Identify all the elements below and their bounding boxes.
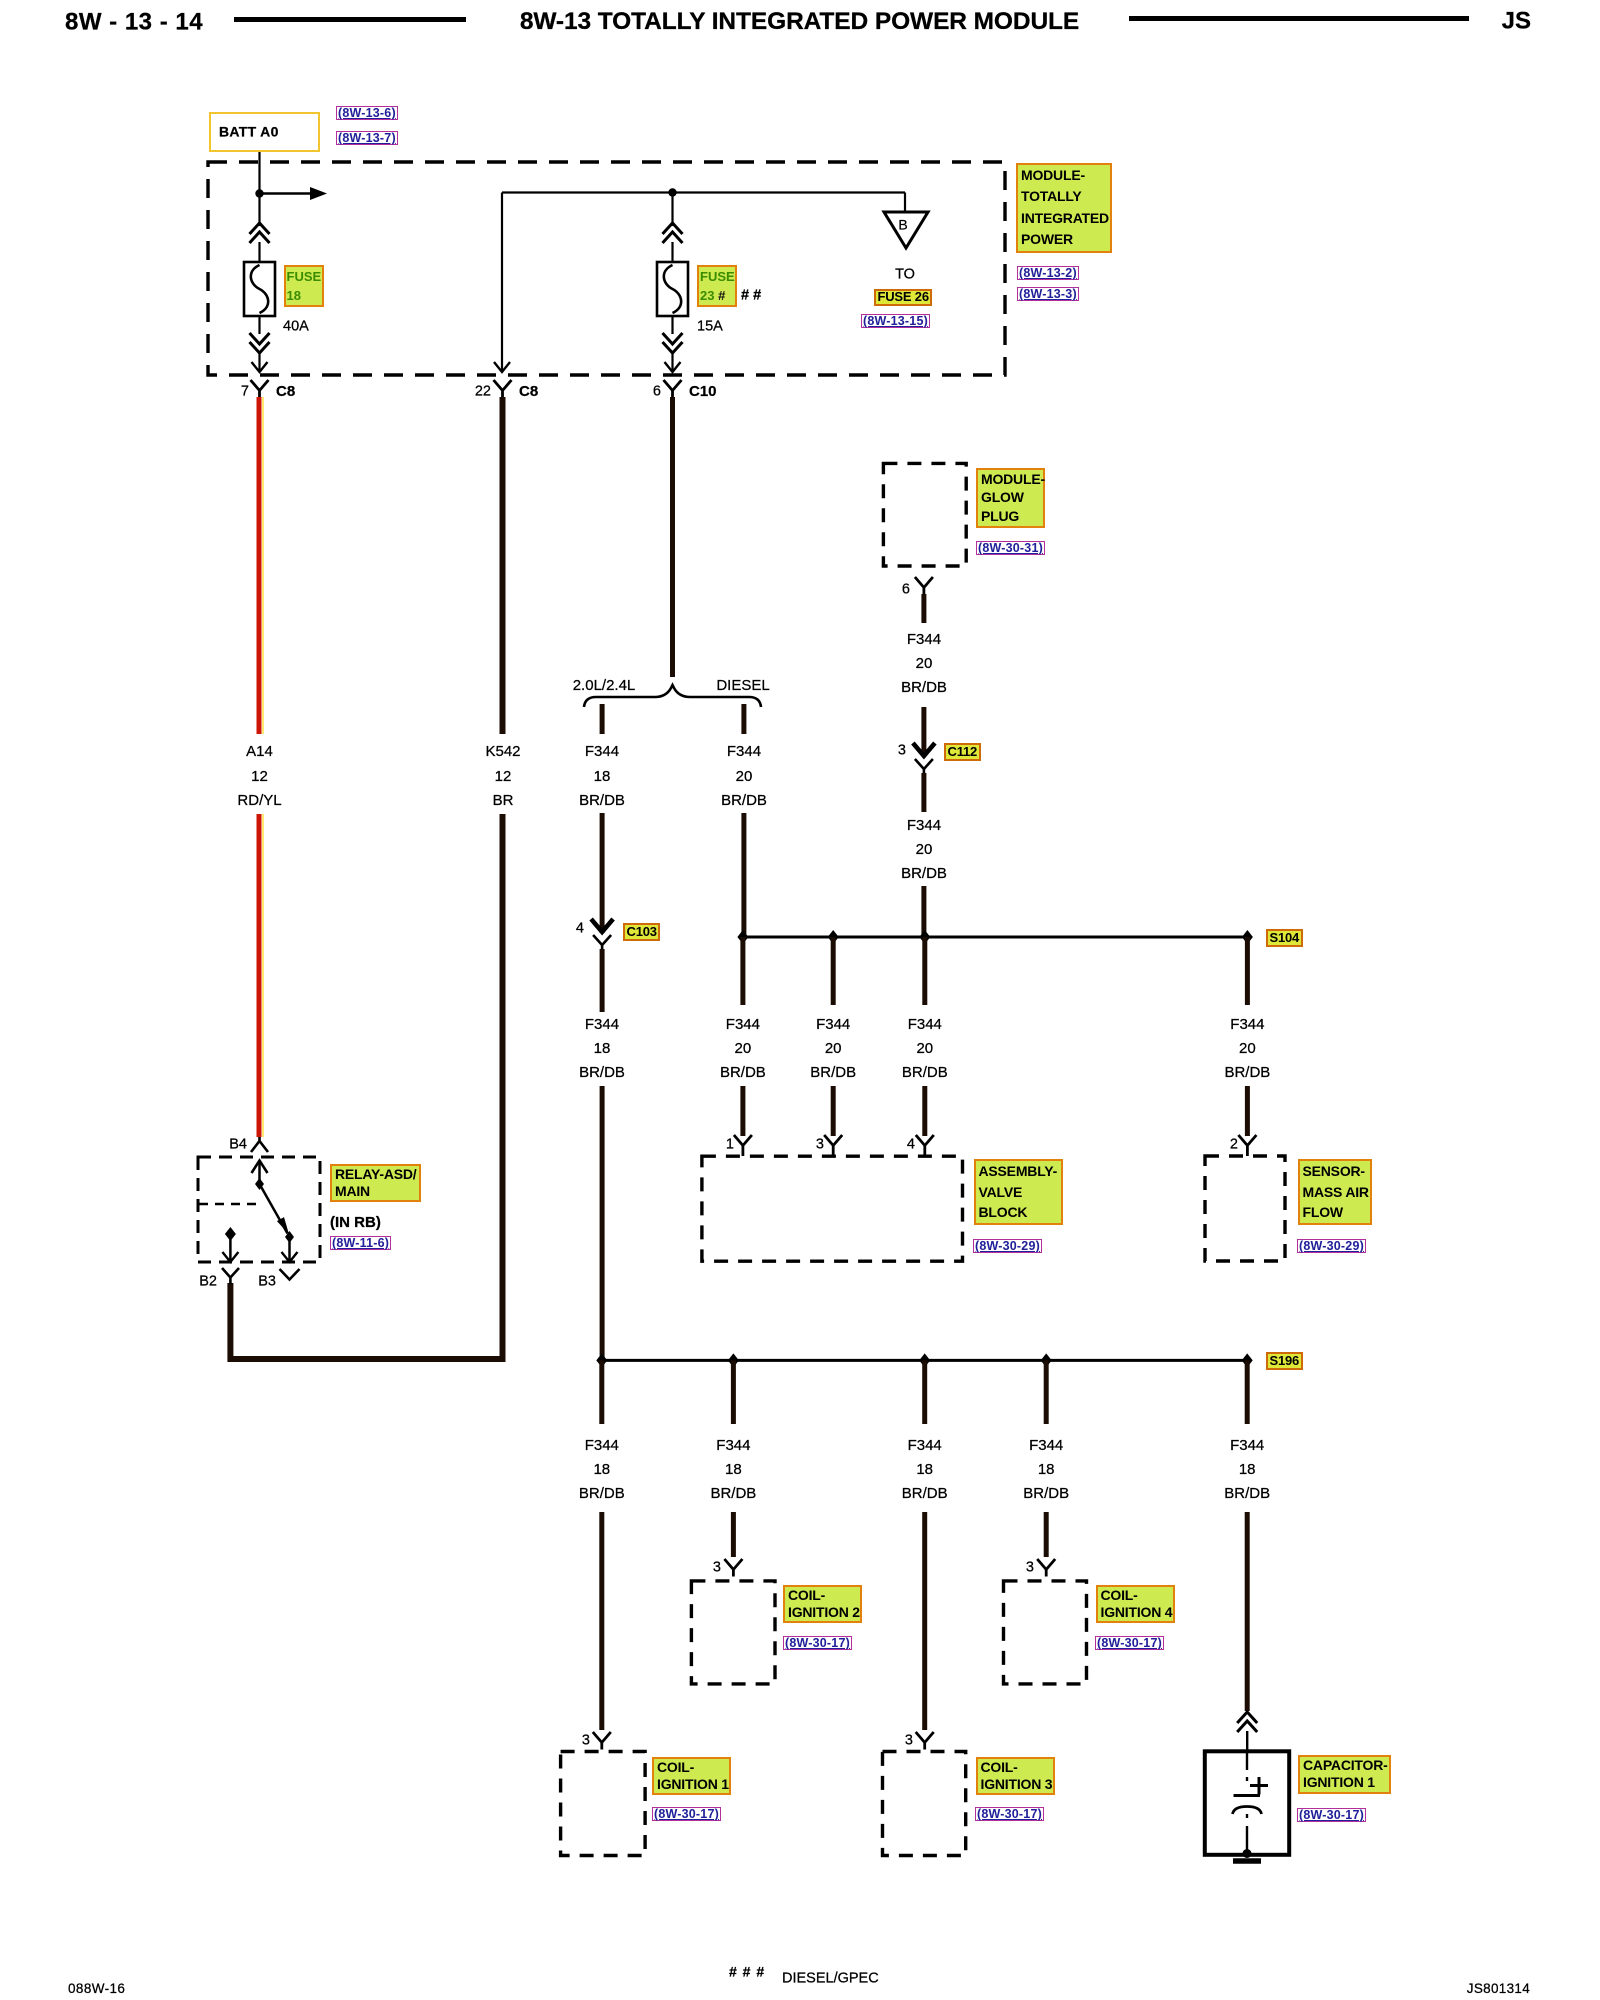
- link 8W-30-31: [976, 541, 1045, 555]
- junction S104 a: [737, 930, 748, 944]
- connector C103: [591, 919, 613, 949]
- module glow plug box: [883, 463, 966, 566]
- connector B4: [251, 1137, 268, 1152]
- wire glow plug upper: [921, 594, 926, 623]
- connector above capacitor: [1237, 1712, 1257, 1732]
- wire to coil ignition 1: [599, 1512, 604, 1730]
- wire below fuse 18: [258, 316, 260, 334]
- link 8W-30-17 cap: [1297, 1808, 1366, 1822]
- relay contact B3: [282, 1240, 298, 1262]
- module TIPM box (totally integrated power module): [208, 162, 1005, 375]
- label C103: [623, 923, 660, 941]
- relay switch blade: [260, 1184, 295, 1243]
- wire internal bus: [502, 191, 905, 193]
- link 8W-30-17 c4: [1095, 1636, 1164, 1650]
- label S196: [1266, 1352, 1303, 1370]
- stub right branch: [741, 704, 746, 734]
- brace split 2.0L/2.4L vs DIESEL: [584, 685, 761, 707]
- pin 1 connector: [734, 1135, 752, 1156]
- connector symbol above fuse 18: [250, 223, 270, 243]
- wire S196 drop 2 stub: [731, 1360, 736, 1424]
- marker ##: [741, 288, 761, 303]
- wire S196 drop 1 stub: [599, 1360, 604, 1424]
- pin 4 connector: [916, 1135, 934, 1156]
- junction S104 c: [919, 930, 930, 944]
- pin 3 coil 2: [724, 1559, 742, 1577]
- label CAPACITOR-IGNITION 1: [1298, 1755, 1391, 1794]
- page header title left: [65, 9, 203, 34]
- value 40A: [283, 319, 309, 334]
- link 8W-30-29 valve: [973, 1239, 1042, 1253]
- label ASSEMBLY-VALVE BLOCK: [974, 1159, 1063, 1225]
- link 8W-30-17 c3: [975, 1807, 1044, 1821]
- link 8W-30-17 c1: [652, 1807, 721, 1821]
- link 8W-11-6: [330, 1236, 391, 1250]
- connector symbol below fuse 18: [250, 333, 270, 353]
- wire to coil ignition 2: [731, 1512, 736, 1557]
- label MODULE-GLOW PLUG: [976, 468, 1045, 528]
- connector B2: [222, 1268, 239, 1284]
- label RELAY-ASD/MAIN: [330, 1164, 421, 1202]
- wire K542 12 BR: [500, 397, 506, 1359]
- label SENSOR-MASS AIR FLOW: [1298, 1159, 1372, 1225]
- label wire F344 18 s196-3: [908, 1438, 942, 1454]
- wire S196 drop 5 stub: [1245, 1360, 1250, 1424]
- wire battery feed: [258, 150, 260, 226]
- label C112: [944, 743, 981, 761]
- label wire F344 20 drop 3: [908, 1017, 942, 1033]
- wire S104 drop 2 lower: [831, 1086, 836, 1136]
- junction S196 4: [1041, 1353, 1052, 1367]
- wire S196 drop 3 stub: [922, 1360, 927, 1424]
- label COIL-IGNITION 4: [1096, 1585, 1175, 1623]
- footer code JS801314: [1467, 1982, 1530, 1996]
- wire to off-page B: [904, 193, 906, 214]
- label wire F344 18 s196-4: [1029, 1438, 1063, 1454]
- pin 7 C8: [241, 384, 249, 399]
- text TO FUSE 26: [895, 267, 915, 282]
- junction S196 3: [919, 1353, 930, 1367]
- label wire F344 18 s196-2: [716, 1438, 750, 1454]
- wire S104 drop 1 lower: [740, 1086, 745, 1136]
- relay common arm: [252, 1161, 268, 1191]
- label wire A14: [246, 744, 273, 760]
- pin 3 coil 3: [916, 1732, 934, 1750]
- pin B4: [229, 1137, 247, 1152]
- value 15A: [697, 319, 723, 334]
- junction S104 d: [1242, 930, 1253, 944]
- exit arrow pin 6: [665, 352, 681, 372]
- junction S196 2: [728, 1353, 739, 1367]
- connector symbol above fuse 23: [663, 223, 683, 243]
- ground: [1233, 1858, 1261, 1864]
- wire S104 drop 2 upper: [831, 937, 836, 1005]
- splice S196 bus: [602, 1359, 1247, 1362]
- label wire F344 18 mid: [585, 1017, 619, 1033]
- label wire F344 18 s196-5: [1230, 1438, 1264, 1454]
- label wire F344 20 drop 4: [1230, 1017, 1264, 1033]
- label wire F344 20 glow lower: [907, 818, 941, 834]
- fuse 18 (40A): [244, 262, 275, 316]
- junction S196 1: [596, 1353, 607, 1367]
- stub left branch: [600, 704, 605, 734]
- wire S104 drop 1 upper: [740, 937, 745, 1005]
- exit arrow pin 7: [252, 352, 268, 372]
- wire glow to splice: [921, 886, 926, 937]
- coil ignition 3 box: [883, 1752, 966, 1856]
- label wire F344 20 drop 1: [726, 1017, 760, 1033]
- coil ignition 1 box: [561, 1752, 646, 1856]
- label S104: [1266, 929, 1303, 947]
- text (IN RB): [330, 1215, 381, 1231]
- wire arrow to other circuits: [260, 187, 328, 200]
- pin 22 C8: [475, 384, 491, 399]
- header rule right: [1129, 16, 1469, 21]
- coil ignition 4 box: [1004, 1581, 1087, 1684]
- coil ignition 2 box: [691, 1581, 775, 1684]
- capacitor C1 symbol: [1233, 1751, 1269, 1858]
- wire to capacitor: [1245, 1512, 1250, 1711]
- page header JS: [1502, 8, 1531, 33]
- footer DIESEL/GPEC: [782, 1971, 879, 1986]
- pin 2 connector: [1238, 1135, 1256, 1156]
- junction battery feed: [255, 189, 263, 197]
- label MODULE-TOTALLY INTEGRATED POWER: [1016, 163, 1112, 253]
- splice S104 bus: [743, 936, 1248, 939]
- wire S104 drop 3 lower: [922, 1086, 927, 1136]
- off-page connector B: [884, 212, 928, 248]
- link 8W-30-29 maf: [1297, 1239, 1366, 1253]
- label wire F344 20 diesel branch: [727, 744, 761, 760]
- label FUSE 23: [697, 265, 737, 307]
- wire A14 12 RD/YL: [259, 397, 263, 1137]
- wire to fuse 23: [671, 193, 673, 227]
- pin 3 coil 4: [1037, 1559, 1055, 1577]
- pin 6 C10: [653, 384, 661, 399]
- link 8W-13-15: [861, 314, 930, 328]
- link 8W-30-17 c2: [783, 1636, 852, 1650]
- relay ASD box: [198, 1157, 320, 1262]
- connector C112: [913, 743, 935, 773]
- wire into fuse 18: [258, 242, 260, 263]
- pin 6 glow plug: [902, 582, 910, 597]
- wire from pin 6 C10: [670, 397, 675, 677]
- label wire F344 18 left branch: [585, 744, 619, 760]
- relay contact B2: [222, 1227, 238, 1262]
- relay coil divider: [199, 1203, 258, 1206]
- pin 3 connector: [824, 1135, 842, 1156]
- pin 3 coil 1: [593, 1732, 611, 1750]
- link 8W-13-6: [336, 106, 398, 120]
- wire S196 drop 4 stub: [1044, 1360, 1049, 1424]
- link 8W-13-7: [336, 131, 398, 145]
- wire S104 drop 4 upper: [1245, 937, 1250, 1005]
- node BATT A0: [209, 112, 320, 152]
- wire S104 drop 4 lower: [1245, 1086, 1250, 1136]
- wire to coil ignition 3: [922, 1512, 927, 1730]
- link 8W-13-3: [1017, 287, 1079, 301]
- junction internal bus: [668, 188, 676, 196]
- connector symbol below fuse 23: [663, 333, 683, 353]
- label COIL-IGNITION 3: [976, 1757, 1055, 1795]
- page header title center: [520, 9, 1079, 35]
- wire left branch upper: [600, 813, 605, 933]
- header rule left: [234, 17, 466, 22]
- sensor mass air flow box: [1205, 1156, 1285, 1261]
- wire drop to pin 22: [494, 193, 510, 373]
- wire relay return: [228, 1283, 506, 1362]
- fuse 23 (15A): [657, 262, 688, 316]
- text 2.0L/2.4L: [573, 678, 636, 694]
- label COIL-IGNITION 1: [652, 1757, 731, 1795]
- wire left branch lower: [600, 1086, 605, 1360]
- label wire F344 20 drop 2: [816, 1017, 850, 1033]
- label wire K542: [485, 744, 520, 760]
- footer sheet number: [68, 1982, 125, 1996]
- footer marker ###: [729, 1964, 765, 1979]
- junction S196 5: [1242, 1353, 1253, 1367]
- assembly valve block box: [702, 1156, 963, 1261]
- wire S104 drop 3 upper: [922, 937, 927, 1005]
- connector B3: [280, 1269, 300, 1280]
- label wire F344 18 s196-1: [585, 1438, 619, 1454]
- label wire F344 20 glow upper: [907, 632, 941, 648]
- label COIL-IGNITION 2: [783, 1585, 862, 1623]
- label FUSE 18: [284, 265, 324, 307]
- link 8W-13-2: [1017, 266, 1079, 280]
- capacitor ignition 1 box: [1205, 1751, 1289, 1855]
- junction S104 b: [828, 930, 839, 944]
- text DIESEL: [716, 678, 769, 694]
- wire to coil ignition 4: [1044, 1512, 1049, 1557]
- wire diesel branch: [741, 813, 746, 937]
